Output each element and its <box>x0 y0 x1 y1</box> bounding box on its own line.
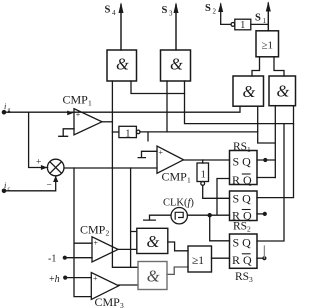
svg-text:S: S <box>162 5 168 16</box>
svg-text:1: 1 <box>187 176 191 185</box>
svg-text:2: 2 <box>247 225 251 234</box>
AND gate box2 (S3) <box>161 50 191 81</box>
wire: CMP3 output to bottom lower-AND <box>119 284 138 286</box>
svg-text:2: 2 <box>106 228 110 237</box>
wire: AND2 right riser down, bus to right-AND bottom-right <box>185 81 294 124</box>
svg-text:1: 1 <box>125 128 130 139</box>
wire: D1 output bus to right <box>140 132 258 141</box>
svg-text:S Q: S Q <box>233 235 252 249</box>
svg-text:S: S <box>255 13 261 24</box>
svg-text:S Q: S Q <box>233 192 252 206</box>
wire: S2 output <box>221 4 231 24</box>
svg-text:&: & <box>147 266 160 285</box>
svg-text:≥1: ≥1 <box>262 39 274 51</box>
svg-text:1: 1 <box>263 17 267 25</box>
wire: tap into inverter 1 box <box>112 131 119 133</box>
wire: S2 inverter input from S1 stem <box>251 23 268 25</box>
wire: ig input line to CMP1 and right bus to left-AND gate <box>4 106 241 112</box>
wire: S4 arrow <box>120 5 122 51</box>
wire: FF3 Qbar output <box>257 257 264 259</box>
wire: summer output error line to mid comparator <box>64 167 157 169</box>
summing junction bottom-input arrowhead <box>53 176 58 182</box>
svg-text:3: 3 <box>169 10 173 18</box>
AND gate lower-bottom (gray) <box>138 262 167 290</box>
svg-text:≥1: ≥1 <box>192 255 204 267</box>
svg-text:&: & <box>116 54 129 73</box>
wire: stem into vertical 1 box <box>202 160 204 163</box>
wire: branch from ig down to summer + input <box>29 112 48 167</box>
OR gate bottom <box>188 246 212 272</box>
wire: CLK branch to FF3 S <box>210 215 230 241</box>
svg-text:S: S <box>105 5 111 16</box>
OR gate top (S1) <box>256 31 279 57</box>
comparator CMP1 triangle <box>74 109 102 135</box>
svg-text:+: + <box>94 239 99 248</box>
svg-text:+h: +h <box>49 274 60 285</box>
wire: top OR split to right AND pair <box>252 57 284 76</box>
AND gate right of right pair <box>269 76 296 106</box>
svg-text:CMP: CMP <box>95 295 121 308</box>
svg-text:CMP: CMP <box>63 93 89 107</box>
wire: error vertical to CMP2/CMP3 <box>74 168 92 297</box>
svg-text:1: 1 <box>201 170 206 181</box>
RS flip-flop 3 <box>230 234 258 268</box>
wire: right vertical to FF2 Q <box>257 106 294 198</box>
svg-text:+: + <box>93 274 98 283</box>
svg-text:4: 4 <box>112 9 116 17</box>
svg-text:RS: RS <box>233 221 247 233</box>
svg-text:+: + <box>159 148 164 157</box>
wire: lower OR output to FF3 R <box>212 257 230 259</box>
wire H1 joining AND1/AND2 right inputs <box>131 81 185 94</box>
svg-text:2: 2 <box>213 8 217 16</box>
AND gate box1 (S4) <box>107 50 137 81</box>
svg-text:1: 1 <box>88 99 92 108</box>
svg-text:R Q: R Q <box>232 209 252 223</box>
svg-text:c: c <box>8 187 11 193</box>
wire: S3 arrow <box>175 5 177 51</box>
inverter D1 box <box>119 126 136 137</box>
svg-text:RS: RS <box>235 271 249 283</box>
svg-text:CLK(f): CLK(f) <box>163 198 194 209</box>
node ic <box>2 189 7 194</box>
arrowhead into CMP1 + input <box>67 111 73 116</box>
svg-text:&: & <box>147 232 160 251</box>
node ig <box>2 110 7 115</box>
wire: FF1 Qbar output <box>257 177 275 179</box>
wire: FF1 Q output <box>257 159 275 161</box>
svg-text:1: 1 <box>247 145 251 154</box>
svg-text:&: & <box>170 54 183 73</box>
wire: AND2 left input stub down to D1 bus <box>166 81 168 132</box>
svg-text:S Q: S Q <box>233 155 252 169</box>
wire: bottom lower-AND output to OR <box>167 267 188 274</box>
wire V1: AND1 left input down to bottom-AND <box>112 81 138 267</box>
svg-text:−: − <box>47 181 52 191</box>
svg-text:+: + <box>36 158 41 168</box>
comparator CMP3 triangle <box>91 273 118 300</box>
S2 inverter box <box>235 19 251 30</box>
svg-text:1: 1 <box>240 20 245 31</box>
wire: mid comparator output to FF1 S <box>184 159 230 161</box>
wire: CMP1 output to V1 <box>102 121 112 123</box>
AND gate lower-top <box>137 228 168 253</box>
svg-text:S: S <box>205 3 211 14</box>
wire: -1 input <box>65 257 92 259</box>
wire: CMP2 output to top lower-AND <box>118 248 137 250</box>
svg-text:+: + <box>76 110 81 119</box>
wire: FF3 Q riser <box>257 124 284 241</box>
wire: CLK line to FF2 R, FF1 R <box>187 179 229 216</box>
svg-text:g: g <box>8 108 11 114</box>
wire: ic line to summer bottom <box>4 177 56 191</box>
CLK circle <box>171 208 187 224</box>
wire: left-AND bottom-right stub and link <box>258 106 276 178</box>
summing junction circle <box>47 159 64 176</box>
comparator CMP2 triangle <box>92 237 118 262</box>
summing junction left-input arrowhead <box>41 165 48 170</box>
svg-text:R Q: R Q <box>232 173 252 187</box>
wire: +h input <box>65 277 91 279</box>
wire: S1 output stem <box>267 3 269 31</box>
svg-text:&: & <box>243 82 256 101</box>
svg-text:CMP: CMP <box>162 170 188 184</box>
wire: FF2 Qbar output <box>257 213 265 215</box>
comparator mid triangle <box>157 146 184 173</box>
svg-text:-1: -1 <box>48 254 56 265</box>
svg-text:R Q: R Q <box>232 253 252 267</box>
wire: vertical inverter out to FF2 S <box>203 185 230 198</box>
svg-text:CMP: CMP <box>80 222 106 236</box>
wire: top lower-AND output to OR <box>168 242 188 251</box>
wire: error tap V2 down to lower AND gates <box>131 168 137 267</box>
svg-text:RS: RS <box>233 141 247 153</box>
vertical inverter box <box>197 163 209 182</box>
AND gate left of right pair <box>233 76 264 106</box>
RS flip-flop 1 <box>230 151 258 185</box>
wire: CLK left termination <box>144 215 171 220</box>
ground CMP1 <box>59 129 74 137</box>
svg-text:3: 3 <box>120 301 124 308</box>
svg-text:&: & <box>277 81 290 100</box>
svg-text:3: 3 <box>249 275 253 284</box>
ground mid comparator <box>138 151 157 157</box>
RS flip-flop 2 <box>230 191 258 221</box>
